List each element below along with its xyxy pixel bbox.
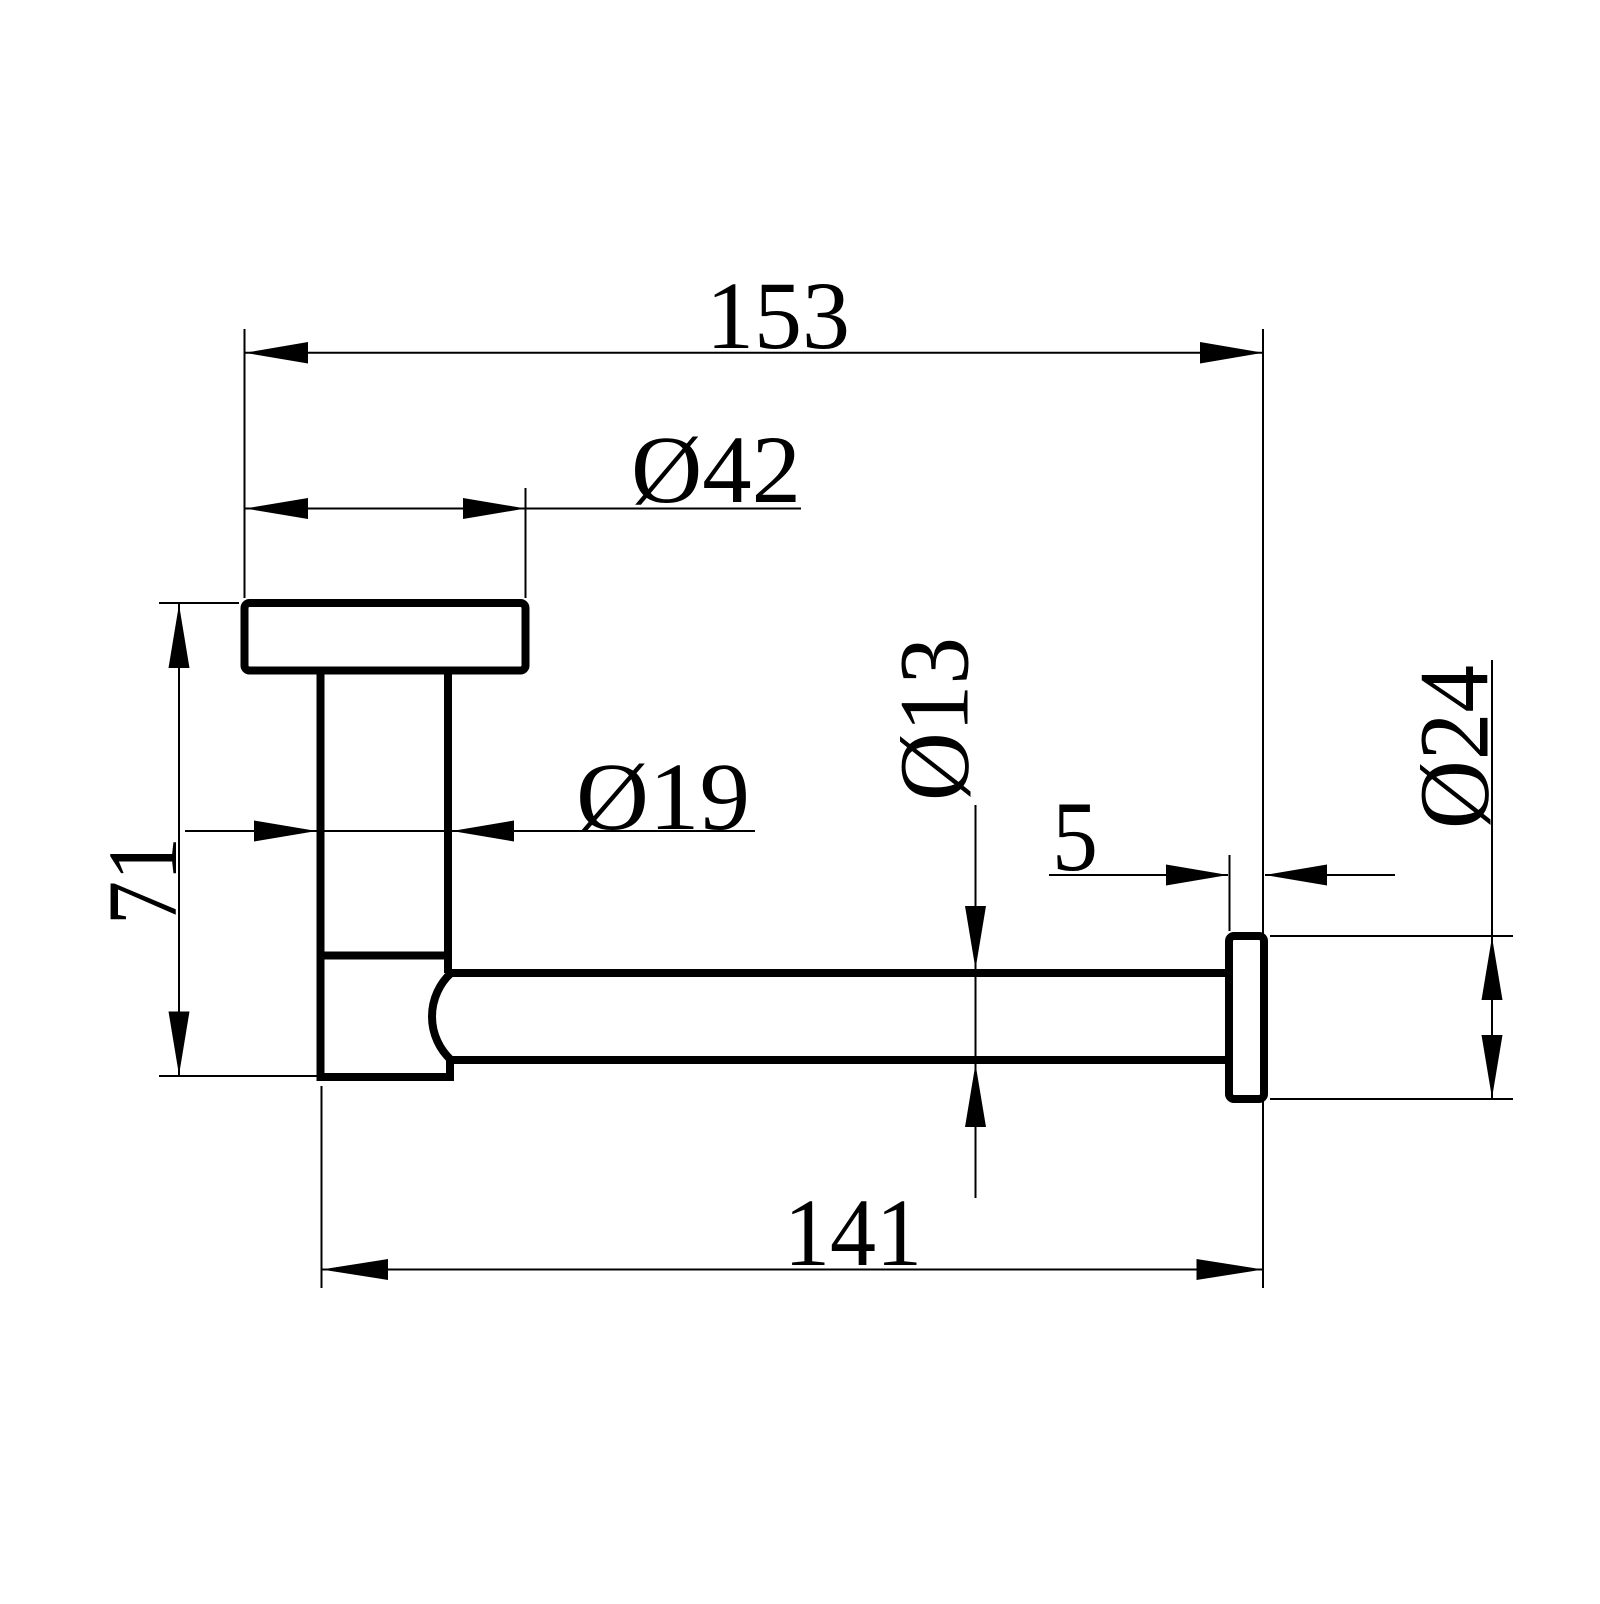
dim 141 left arrowhead	[322, 1259, 389, 1280]
svg-text:71: 71	[87, 837, 198, 925]
dim Ø13 line	[975, 805, 977, 1198]
dim Ø13 upper arrowhead	[965, 906, 986, 969]
dim Ø24 bottom extension line	[1270, 1098, 1513, 1100]
dim 5 right tail line	[1265, 874, 1395, 876]
svg-text:153: 153	[706, 262, 850, 369]
dim Ø24 upper arrowhead	[1482, 937, 1503, 1000]
post left edge	[317, 671, 325, 1078]
dim 153 left arrowhead	[245, 342, 308, 364]
dim Ø42 right arrowhead	[463, 498, 526, 519]
dim 71 bottom extension line	[159, 1075, 317, 1077]
roll bar bottom edge and elbow bottom	[317, 1060, 1230, 1077]
dim 5 left tail line	[1049, 874, 1228, 876]
svg-text:Ø19: Ø19	[576, 743, 750, 850]
dim 153/141 shared right extension line	[1262, 329, 1264, 1288]
svg-text:5: 5	[1052, 781, 1098, 892]
dim Ø42 left arrowhead	[245, 498, 308, 519]
dim 141 line	[322, 1269, 1264, 1271]
svg-text:Ø24: Ø24	[1399, 665, 1510, 829]
post right edge	[444, 671, 452, 974]
dim 71 bottom arrowhead	[169, 1012, 190, 1076]
dim Ø19 left arrowhead	[254, 821, 317, 842]
svg-text:141: 141	[784, 1179, 922, 1286]
dim Ø42 right extension line	[525, 488, 527, 598]
dim 5 left arrowhead	[1166, 865, 1228, 886]
left flange (wall plate) outline	[245, 603, 526, 671]
dim 5 tick extension line	[1229, 855, 1231, 931]
post joint seam	[317, 952, 453, 960]
svg-text:Ø42: Ø42	[631, 416, 801, 523]
dim 153 line	[245, 352, 1263, 354]
roll bar end arc	[432, 973, 451, 1060]
svg-text:Ø13: Ø13	[879, 637, 990, 801]
dim 71 line	[178, 604, 180, 1075]
dim Ø24 top extension line	[1270, 935, 1513, 937]
dim Ø13 lower arrowhead	[965, 1064, 986, 1127]
dim 71 top arrowhead	[169, 605, 190, 669]
dim 153 right arrowhead	[1200, 342, 1263, 364]
dim 71 top extension line	[159, 602, 239, 604]
roll bar top edge	[448, 969, 1229, 977]
dim Ø19 right arrowhead	[452, 821, 514, 842]
dim Ø19 line	[185, 830, 755, 832]
dim 5 right arrowhead	[1265, 865, 1327, 886]
dim 141 left extension line	[321, 1086, 323, 1288]
dim Ø24 lower arrowhead	[1482, 1035, 1503, 1098]
dim 153 left extension line	[244, 329, 246, 598]
dim 141 right arrowhead	[1197, 1259, 1264, 1280]
right flange (end cap) outline	[1229, 936, 1264, 1099]
dim Ø24 line	[1491, 660, 1493, 1098]
dim Ø42 line	[245, 508, 801, 510]
